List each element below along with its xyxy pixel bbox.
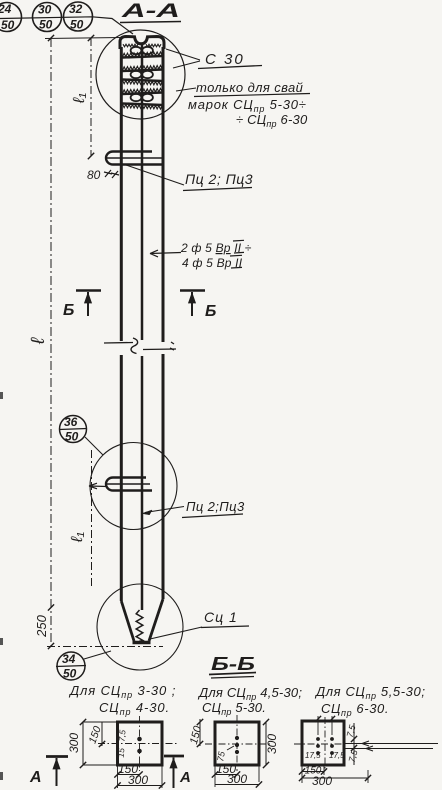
sq2 center line vertical <box>236 715 238 771</box>
sq2 bottom ext lines <box>214 765 216 787</box>
square section 3 <box>302 721 344 765</box>
rebar serrated bar <box>123 104 163 106</box>
rebar serrated bar <box>123 80 163 82</box>
mark circle 32/50 <box>64 2 93 32</box>
rebar loop pair <box>131 94 142 101</box>
leader from 34/50 to tip circle <box>84 651 111 659</box>
svg-text:СЦпр 5-30.: СЦпр 5-30. <box>202 700 266 717</box>
pile taper right <box>149 599 163 641</box>
svg-text:300: 300 <box>227 772 247 786</box>
leader lines to C 30 <box>166 49 200 68</box>
detail circle around pile head <box>96 30 185 119</box>
sq3 rebar dots (2x3) <box>316 737 320 741</box>
svg-text:Б: Б <box>63 302 74 319</box>
label Pc 2; Pc3 <box>183 171 253 191</box>
sq2 bottom dim 150 <box>212 762 240 778</box>
sq2 right dim 300 <box>263 719 279 768</box>
svg-text:СЦпр 6-30.: СЦпр 6-30. <box>321 701 389 718</box>
tick at taper start (607) <box>48 604 54 610</box>
dimension line l1 bottom, dash-dot <box>91 450 93 588</box>
rebar note line 2 <box>182 255 243 270</box>
break line right <box>143 348 176 351</box>
rebar loop pair <box>131 71 142 78</box>
section marker A middle <box>164 756 191 788</box>
leader line to tolko dlya svay note <box>176 88 196 91</box>
svg-text:СЦпр 4-30.: СЦпр 4-30. <box>99 700 170 717</box>
dimension line l (full length), dash-dot <box>50 38 52 646</box>
sq1 inner dim 150 <box>87 722 106 747</box>
sq3 horizontal center dash <box>294 743 345 745</box>
pile right edge (upper) <box>162 47 165 342</box>
dimension line l1 top, dash-dot <box>90 38 92 156</box>
svg-text:Пц 2;Пц3: Пц 2;Пц3 <box>186 499 245 514</box>
pile center line (upper) <box>141 44 144 340</box>
pile taper left <box>121 601 134 641</box>
square section 2 <box>215 722 259 765</box>
svg-text:Б-Б: Б-Б <box>211 654 255 674</box>
svg-text:А: А <box>29 769 42 786</box>
section marker B right <box>180 291 216 321</box>
mark circle 24/50 (clipped) <box>0 2 22 32</box>
svg-text:ℓ₁: ℓ₁ <box>69 532 86 543</box>
title A-A <box>120 1 181 23</box>
sq1 bottom dim 150 <box>114 762 142 778</box>
title B-B <box>209 654 256 678</box>
sq3 vertical center dash <box>324 717 326 770</box>
svg-text:17,5: 17,5 <box>329 751 345 760</box>
sq1 bottom ext lines <box>117 765 119 788</box>
sq1 rebar dot upper <box>137 737 142 742</box>
rebar serrated bar <box>123 70 163 72</box>
break line left <box>104 342 133 345</box>
svg-text:300: 300 <box>67 733 81 753</box>
top extension line <box>45 38 121 39</box>
svg-text:50: 50 <box>70 18 84 32</box>
svg-text:32: 32 <box>69 2 83 16</box>
svg-text:36: 36 <box>64 415 78 429</box>
stirrup loop Pc top <box>106 152 163 165</box>
sq3 vertical ext from dot columns <box>317 716 319 735</box>
leader from 36/50 to detail circle <box>85 437 103 455</box>
svg-text:34: 34 <box>62 652 76 666</box>
sq1 left dim 300 <box>67 719 117 768</box>
fraction bar line through circles + leader to pile top <box>0 17 133 34</box>
svg-text:50: 50 <box>1 18 15 32</box>
mark circle 30/50 <box>33 3 62 32</box>
break tail marks <box>170 342 174 350</box>
tick at stirrup level <box>88 153 94 159</box>
stirrup loop 2 <box>106 478 152 491</box>
detail circle around lower stirrup <box>90 443 177 530</box>
tick at l1-line top <box>88 35 94 41</box>
rebar serrated bar <box>123 56 163 58</box>
svg-text:300: 300 <box>128 773 148 787</box>
svg-text:30: 30 <box>38 3 52 17</box>
stirrup middle wire <box>106 157 163 159</box>
sq3 bottom ext lines <box>301 765 303 783</box>
label C 30 <box>198 51 262 69</box>
label Sc 1 <box>201 609 249 628</box>
sq3 second line extending right <box>345 748 433 750</box>
sq3 bottom dim 150 <box>299 766 327 777</box>
svg-text:Б: Б <box>205 303 216 320</box>
section marker B left <box>63 291 101 320</box>
svg-text:24: 24 <box>0 2 12 16</box>
sq3 bottom dim 300 <box>299 774 371 788</box>
svg-text:80: 80 <box>87 168 101 182</box>
tip reinforcement zigzag <box>136 610 143 641</box>
section marker A left <box>29 757 68 787</box>
leader to Sc 1 <box>150 627 202 639</box>
sq3 arrows on 7,5 leader lines <box>362 741 373 751</box>
rebar serrated bar <box>123 93 163 95</box>
pile left edge (lower) <box>120 355 123 601</box>
svg-text:только для свай: только для свай <box>196 80 303 95</box>
svg-text:50: 50 <box>65 430 79 444</box>
sq3 center line horizontal (extends right) <box>345 743 438 745</box>
sq1 center line vertical <box>139 716 141 771</box>
svg-text:ℓ₁: ℓ₁ <box>71 93 88 104</box>
sq2 rebar dots <box>235 736 239 740</box>
svg-text:300: 300 <box>312 774 332 788</box>
stirrup 2 middle wire <box>106 483 151 485</box>
note line 1: tolko dlya svay <box>194 80 310 97</box>
pile top cap with lifting notch <box>120 37 164 50</box>
svg-text:7,5: 7,5 <box>117 729 128 742</box>
sq1 rebar dot lower <box>137 749 142 754</box>
label Pc 2;Pc3 (lower) <box>182 499 245 518</box>
arrow on l1 at stirrup level <box>89 483 107 489</box>
svg-text:А: А <box>179 769 191 786</box>
sq2 bottom dim 300 <box>215 772 262 788</box>
svg-text:300: 300 <box>265 734 279 754</box>
leader to Pc label <box>126 165 184 185</box>
break squiggle <box>131 338 138 354</box>
sq2 center line horizontal <box>205 743 271 745</box>
svg-text:С 30: С 30 <box>205 51 245 68</box>
sq1 bottom dim 300 <box>114 773 165 789</box>
pile tip foot bar <box>133 641 151 644</box>
teeth under top cap <box>123 44 138 47</box>
scan artifact marks on left edge <box>0 392 3 399</box>
rebar note line 1 <box>180 240 252 255</box>
pile center line (lower) <box>141 356 144 610</box>
svg-text:50: 50 <box>39 18 53 32</box>
sq3 right dim 7,5 7,5 <box>345 723 360 765</box>
svg-text:Сц 1: Сц 1 <box>204 609 238 625</box>
tick at tip level (646) <box>48 643 54 649</box>
tick at l-line top <box>48 35 54 41</box>
svg-text:15: 15 <box>116 747 127 758</box>
pile right edge (lower) <box>162 354 165 599</box>
arrow to pile <box>150 250 181 257</box>
mark circle 36/50 <box>59 415 87 444</box>
rebar loop pair <box>131 47 142 54</box>
sq1 center line horizontal <box>98 743 177 745</box>
svg-text:250: 250 <box>34 614 49 637</box>
pile left edge (upper) <box>120 47 123 341</box>
sq2 left dim 150 <box>188 719 205 747</box>
svg-text:А-А: А-А <box>120 1 180 22</box>
mark circle 34/50 <box>56 652 86 681</box>
80-dim arrow marks <box>104 170 119 178</box>
square section 1 <box>118 722 163 765</box>
leader+arrow to Pc label 2 <box>145 507 184 513</box>
svg-text:50: 50 <box>63 667 77 681</box>
detail circle around tip <box>97 584 183 670</box>
svg-text:Пц 2; Пц3: Пц 2; Пц3 <box>185 171 253 187</box>
svg-text:17,5: 17,5 <box>305 751 321 760</box>
horizontal dash-dot line at tip level <box>47 646 163 648</box>
svg-text:ℓ: ℓ <box>28 337 49 345</box>
